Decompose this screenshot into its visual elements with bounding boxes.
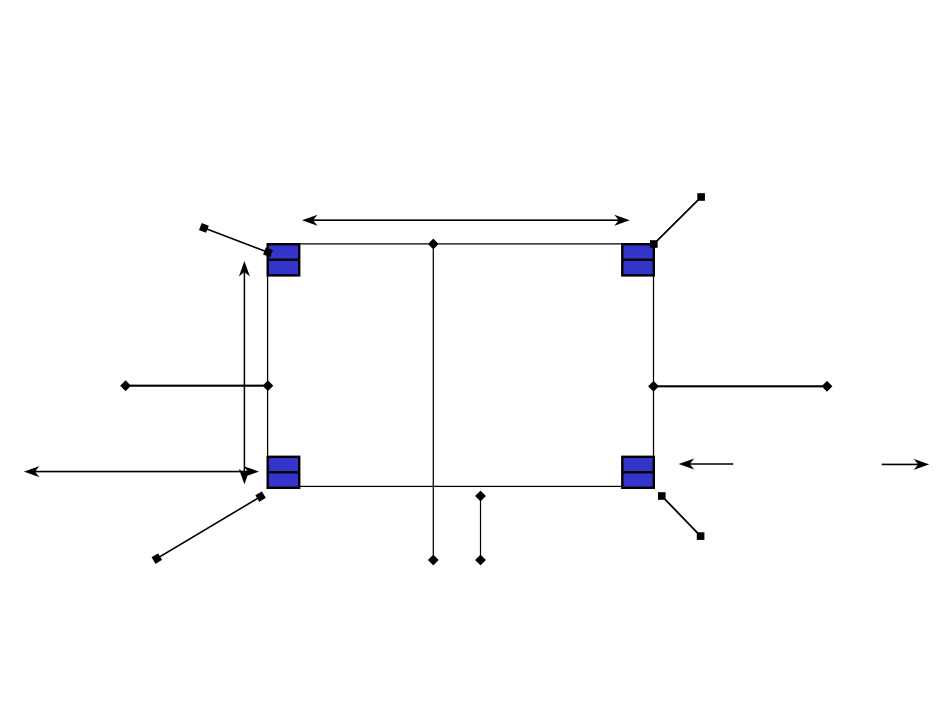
- leader top-left diagonal: [199, 223, 273, 257]
- node diamond top center: [428, 239, 439, 250]
- node diamond short line bottom: [475, 555, 486, 566]
- pad top-left: [268, 244, 300, 275]
- arrow far-right pointing right: [882, 459, 930, 470]
- dimension arrow left vertical double-headed: [239, 261, 250, 484]
- wire right-middle with diamonds: [648, 381, 832, 392]
- leader top-right diagonal: [650, 193, 705, 248]
- wire short vertical line bottom: [480, 496, 482, 560]
- pad bottom-left: [268, 457, 300, 488]
- body rectangle: [268, 244, 654, 487]
- pad bottom-right: [622, 457, 654, 488]
- leader bottom-right diagonal: [658, 492, 704, 540]
- node diamond short line top: [475, 491, 486, 502]
- dimension arrow top horizontal double-headed: [302, 215, 630, 226]
- wire left-middle with diamonds: [120, 380, 273, 391]
- leader bottom-left diagonal: [152, 491, 266, 563]
- wire center vertical line: [432, 244, 434, 560]
- pad top-right: [622, 244, 654, 275]
- arrow bottom-right pointing left: [679, 459, 734, 470]
- dimension arrow bottom-left horizontal double-headed: [24, 466, 259, 477]
- node diamond bottom of center line: [428, 555, 439, 566]
